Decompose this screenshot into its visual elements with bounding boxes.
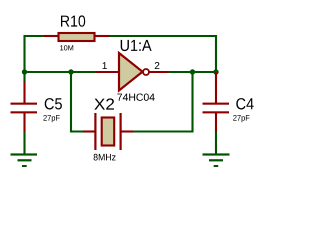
pin 2 [155,62,160,69]
value 10M [60,45,73,50]
capacitor C5 plates [11,103,38,114]
crystal X2 body [102,118,115,146]
label C4 [236,98,253,109]
crystal X2 right electrode bar [120,113,122,150]
label U1:A [121,40,152,51]
wire C5 to ground [23,131,25,154]
capacitor C4 top lead [215,72,217,103]
inverter U1:A output pin lead (pin 2) [150,71,169,73]
label C5 [45,98,62,109]
wire mid horizontal right (output net) [168,71,217,73]
value 27pF (C5) [43,115,59,122]
resistor R10 body [59,33,95,41]
pin 1 [103,62,107,69]
crystal X2 left lead [83,130,95,132]
wire mid horizontal left (input net) [24,71,96,73]
label R10 [61,15,85,26]
crystal X2 right lead [122,130,134,132]
ground (left) [11,153,38,167]
label X2 [94,98,114,109]
node crystal-right junction dot [190,69,195,74]
value 27pF (C4) [233,115,249,122]
wire C4 to ground [215,131,217,154]
node output corner junction dot [213,69,218,74]
wire top-left from resistor to left rail and down [25,36,46,82]
capacitor C5 bottom lead [23,113,25,132]
node crystal-left junction dot [68,69,73,74]
capacitor C4 plates [203,103,230,114]
inverter U1:A triangle body [119,53,143,91]
wire crystal left branch [71,73,83,132]
capacitor C4 bottom lead [215,113,217,132]
crystal X2 left electrode bar [94,113,96,150]
ground (right) [203,153,230,167]
node input junction dot [22,69,27,74]
inverter U1:A output inversion bubble [143,69,149,75]
resistor R10 leads [44,35,110,37]
inverter U1:A input pin lead (pin 1) [96,71,120,73]
wire top-right from resistor to right rail corner and down [110,36,217,71]
wire crystal right branch [133,73,193,132]
label 74HC04 [117,94,154,101]
capacitor C5 top lead [23,81,25,103]
value 8MHz [94,154,116,161]
